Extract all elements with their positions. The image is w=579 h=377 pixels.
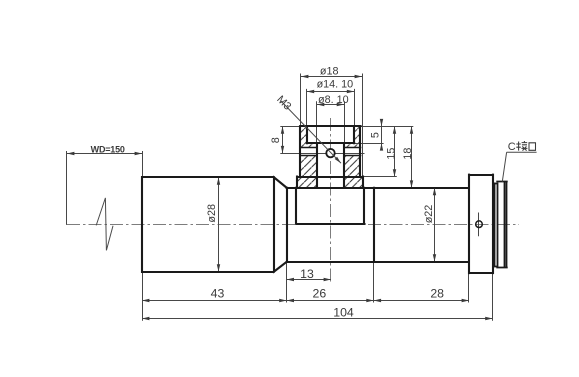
svg-text:8: 8: [270, 137, 282, 143]
svg-text:C: C: [508, 141, 516, 153]
svg-text:28: 28: [430, 286, 444, 300]
svg-text:ø18: ø18: [320, 66, 339, 78]
svg-text:ø8. 10: ø8. 10: [318, 94, 349, 106]
svg-text:5: 5: [369, 132, 381, 138]
svg-text:43: 43: [211, 286, 225, 300]
svg-text:13: 13: [300, 267, 314, 281]
svg-text:ø22: ø22: [423, 205, 435, 224]
svg-text:ø28: ø28: [206, 204, 218, 223]
svg-text:18: 18: [402, 148, 414, 160]
svg-text:104: 104: [333, 306, 354, 320]
svg-text:26: 26: [313, 286, 327, 300]
svg-text:15: 15: [386, 148, 398, 160]
svg-text:ø14. 10: ø14. 10: [317, 79, 354, 91]
svg-text:WD=150: WD=150: [91, 144, 125, 154]
